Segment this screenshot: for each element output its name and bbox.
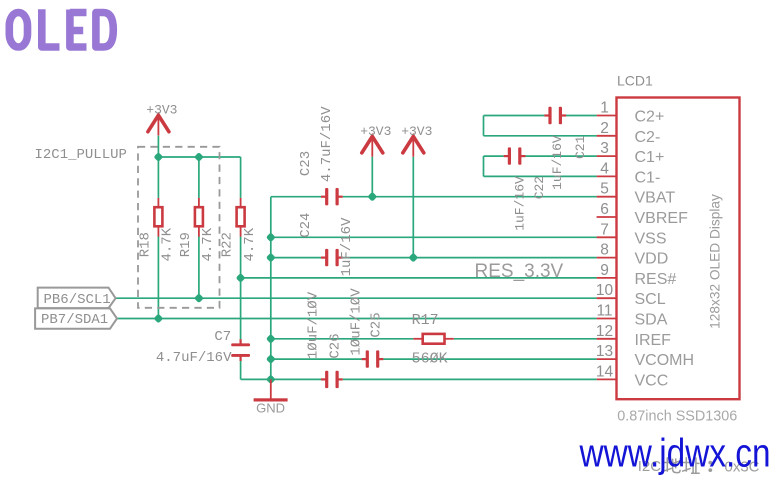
wire C21 to loop corner — [484, 115, 545, 117]
wire VDD left of C24 — [271, 257, 321, 259]
svg-text:1ØuF/1ØV: 1ØuF/1ØV — [306, 291, 322, 359]
svg-text:56ØK: 56ØK — [412, 350, 448, 367]
wire VCC pin14 left — [271, 378, 321, 380]
svg-text:6: 6 — [600, 201, 609, 218]
svg-text:SCL: SCL — [635, 291, 666, 308]
LCD1 pin 1 (C2+) — [597, 100, 665, 126]
svg-text:1ØuF/1ØV: 1ØuF/1ØV — [348, 288, 364, 356]
svg-text:C2+: C2+ — [635, 109, 665, 126]
svg-text:SDA: SDA — [635, 312, 668, 329]
svg-text:RES#: RES# — [635, 271, 677, 288]
svg-text:C2-: C2- — [635, 129, 661, 146]
svg-text:R18: R18 — [137, 232, 153, 257]
wire +3V3 to VDD — [412, 157, 414, 258]
svg-text:4.7K: 4.7K — [242, 227, 258, 261]
wire R18 top — [157, 157, 159, 198]
svg-text:VBREF: VBREF — [635, 210, 689, 227]
svg-text:LCD1: LCD1 — [617, 72, 653, 88]
LCD1 pin 9 (RES#) — [597, 262, 677, 288]
junction R18 / SDA — [153, 314, 163, 324]
LCD1 pin 12 (IREF) — [596, 323, 671, 349]
svg-text:I2C1_PULLUP: I2C1_PULLUP — [35, 147, 127, 163]
wire C21 loop vertical — [483, 116, 485, 136]
wire C22 loop vertical — [483, 156, 485, 176]
svg-text:C7: C7 — [214, 329, 231, 345]
wire IREF pin12 left — [271, 338, 414, 340]
wire R18 bottom to SDA — [157, 236, 159, 318]
svg-text:+3V3: +3V3 — [360, 124, 391, 139]
svg-text:4.7K: 4.7K — [160, 227, 176, 261]
net flag PB6/SCL1 — [38, 288, 116, 309]
LCD1 pin 4 (C1-) — [597, 160, 661, 186]
wire C7 to ground junction — [241, 378, 271, 380]
LCD1 pin 3 (C1+) — [597, 140, 665, 166]
LCD1 pin 6 (VBREF) — [597, 201, 688, 227]
wire VBAT left of C23 — [271, 196, 321, 198]
junction bus / C25 — [266, 354, 276, 364]
wire RES net pin9 — [241, 277, 597, 279]
LCD1 pin 7 (VSS) — [597, 221, 667, 247]
svg-text:11: 11 — [596, 303, 612, 320]
svg-text:C24: C24 — [298, 213, 314, 238]
IC LCD1 — [617, 98, 740, 400]
LCD1 pin 10 (SCL) — [596, 282, 666, 308]
wire pullup top — [158, 156, 240, 158]
svg-text:5: 5 — [600, 181, 609, 198]
svg-text:7: 7 — [600, 221, 609, 238]
wire VSS pin7 — [271, 236, 597, 238]
svg-text:1: 1 — [600, 100, 609, 117]
svg-text:C26: C26 — [328, 333, 344, 358]
svg-text:+3V3: +3V3 — [146, 103, 177, 118]
resistor R17 — [413, 334, 453, 344]
svg-text:1uF/16V: 1uF/16V — [339, 217, 355, 276]
svg-text:R19: R19 — [178, 232, 194, 257]
svg-text:13: 13 — [596, 343, 613, 360]
capacitor C22 — [504, 147, 526, 164]
LCD1 pin 11 (SDA) — [596, 303, 667, 329]
svg-text:4.7uF/16V: 4.7uF/16V — [319, 106, 335, 182]
svg-text:1uF/16V: 1uF/16V — [513, 176, 528, 231]
svg-text:R17: R17 — [412, 312, 439, 329]
LCD1 pin 2 (C2-) — [597, 120, 661, 146]
resistor R18 — [154, 198, 162, 237]
wire +3V3 to VBAT — [371, 157, 373, 197]
svg-text:4.7K: 4.7K — [200, 227, 216, 261]
junction +3V3 / VDD — [408, 253, 418, 263]
power +3V3 (pullups) — [146, 103, 177, 136]
svg-text:C25: C25 — [369, 312, 385, 337]
capacitor C24 — [321, 249, 343, 266]
svg-text:4: 4 — [600, 160, 609, 177]
ground GND — [254, 379, 288, 415]
svg-text:C23: C23 — [298, 151, 314, 176]
pullup group dashed box I2C1_PULLUP — [138, 147, 220, 308]
wire C1- pin4 — [484, 175, 597, 177]
svg-text:4.7uF/16V: 4.7uF/16V — [156, 350, 232, 366]
title OLED — [9, 9, 113, 47]
wire IREF pin12 right of R17 — [454, 338, 597, 340]
svg-text:VSS: VSS — [635, 230, 667, 247]
wire VBAT pin5 — [343, 196, 597, 198]
wire C22 to loop corner — [484, 155, 504, 157]
wire VCC pin14 right of C26 — [343, 378, 597, 380]
wire ground bus vertical — [270, 197, 272, 380]
svg-text:10: 10 — [596, 282, 614, 299]
junction bus / VCC / GND — [266, 374, 276, 384]
LCD1 pin 13 (VCOMH) — [596, 343, 694, 369]
junction bus / IREF — [266, 334, 276, 344]
LCD1 pin 14 (VCC) — [596, 363, 668, 389]
svg-text:+3V3: +3V3 — [401, 124, 432, 139]
junction R22 / RES — [236, 273, 246, 283]
svg-text:C1+: C1+ — [635, 149, 665, 166]
svg-text:GND: GND — [256, 401, 285, 416]
junction R19 / SCL — [194, 293, 204, 303]
svg-text:0.87inch SSD1306: 0.87inch SSD1306 — [617, 408, 737, 424]
svg-text:www.jdwx.cn: www.jdwx.cn — [579, 430, 771, 475]
capacitor C7 — [231, 339, 250, 361]
svg-text:PB7/SDA1: PB7/SDA1 — [41, 312, 108, 328]
resistor R19 — [195, 198, 203, 237]
wire SCL pin10 — [116, 297, 597, 299]
svg-text:C22: C22 — [532, 176, 547, 199]
svg-text:12: 12 — [596, 323, 613, 340]
LCD1 pin 8 (VDD) — [597, 242, 669, 268]
capacitor C21 — [544, 107, 566, 124]
svg-text:1uF/16V: 1uF/16V — [550, 135, 565, 190]
svg-text:PB6/SCL1: PB6/SCL1 — [44, 292, 111, 308]
svg-text:VDD: VDD — [635, 251, 669, 268]
resistor R22 — [237, 198, 245, 237]
text I2C address 0x3C (partially behind watermark) — [638, 457, 760, 475]
capacitor C26 — [321, 371, 343, 388]
junction +3V3 / R18 / pullup top — [153, 152, 163, 162]
power +3V3 (VDD) — [401, 124, 432, 157]
svg-text:VCC: VCC — [635, 372, 669, 389]
svg-text:9: 9 — [600, 262, 609, 279]
svg-text:14: 14 — [596, 363, 614, 380]
junction bus / C24 — [266, 253, 276, 263]
svg-text:VCOMH: VCOMH — [635, 352, 695, 369]
wire R22 bottom to RES — [240, 236, 242, 278]
svg-text:2: 2 — [600, 120, 609, 137]
wire C2- pin2 — [484, 135, 597, 137]
svg-text:3: 3 — [600, 140, 609, 157]
LCD1 pin 5 (VBAT) — [597, 181, 676, 207]
wire R22 top — [240, 157, 242, 198]
wire SDA pin11 — [117, 318, 597, 320]
capacitor C25 — [362, 350, 384, 367]
svg-text:C21: C21 — [573, 135, 588, 159]
wire C1+ pin3 to C22 — [525, 155, 596, 157]
wire +3V3 to pullup top — [157, 136, 159, 157]
capacitor C23 — [321, 188, 343, 205]
wire C7 bottom — [240, 361, 242, 380]
svg-text:RES_3.3V: RES_3.3V — [475, 261, 564, 282]
junction bus / VSS — [266, 232, 276, 242]
junction +3V3 / VBAT — [367, 192, 377, 202]
wire VCOMH pin13 right of C25 — [383, 358, 596, 360]
wire RES to C7 — [240, 278, 242, 339]
power +3V3 (VBAT) — [360, 124, 391, 157]
wire VDD pin8 — [343, 257, 597, 259]
wire R19 top — [198, 157, 200, 198]
svg-text:8: 8 — [600, 242, 609, 259]
svg-text:R22: R22 — [220, 232, 236, 257]
wire C2+ pin1 to C21 — [566, 115, 597, 117]
junction R19 / pullup top — [194, 152, 204, 162]
svg-text:VBAT: VBAT — [635, 190, 676, 207]
svg-text:128x32 OLED Display: 128x32 OLED Display — [707, 194, 722, 329]
svg-text:C1-: C1- — [635, 169, 661, 186]
wire R19 bottom to SCL — [198, 236, 200, 298]
wire VCOMH pin13 left — [271, 358, 362, 360]
svg-text:IREF: IREF — [635, 332, 672, 349]
net flag PB7/SDA1 — [35, 308, 117, 328]
